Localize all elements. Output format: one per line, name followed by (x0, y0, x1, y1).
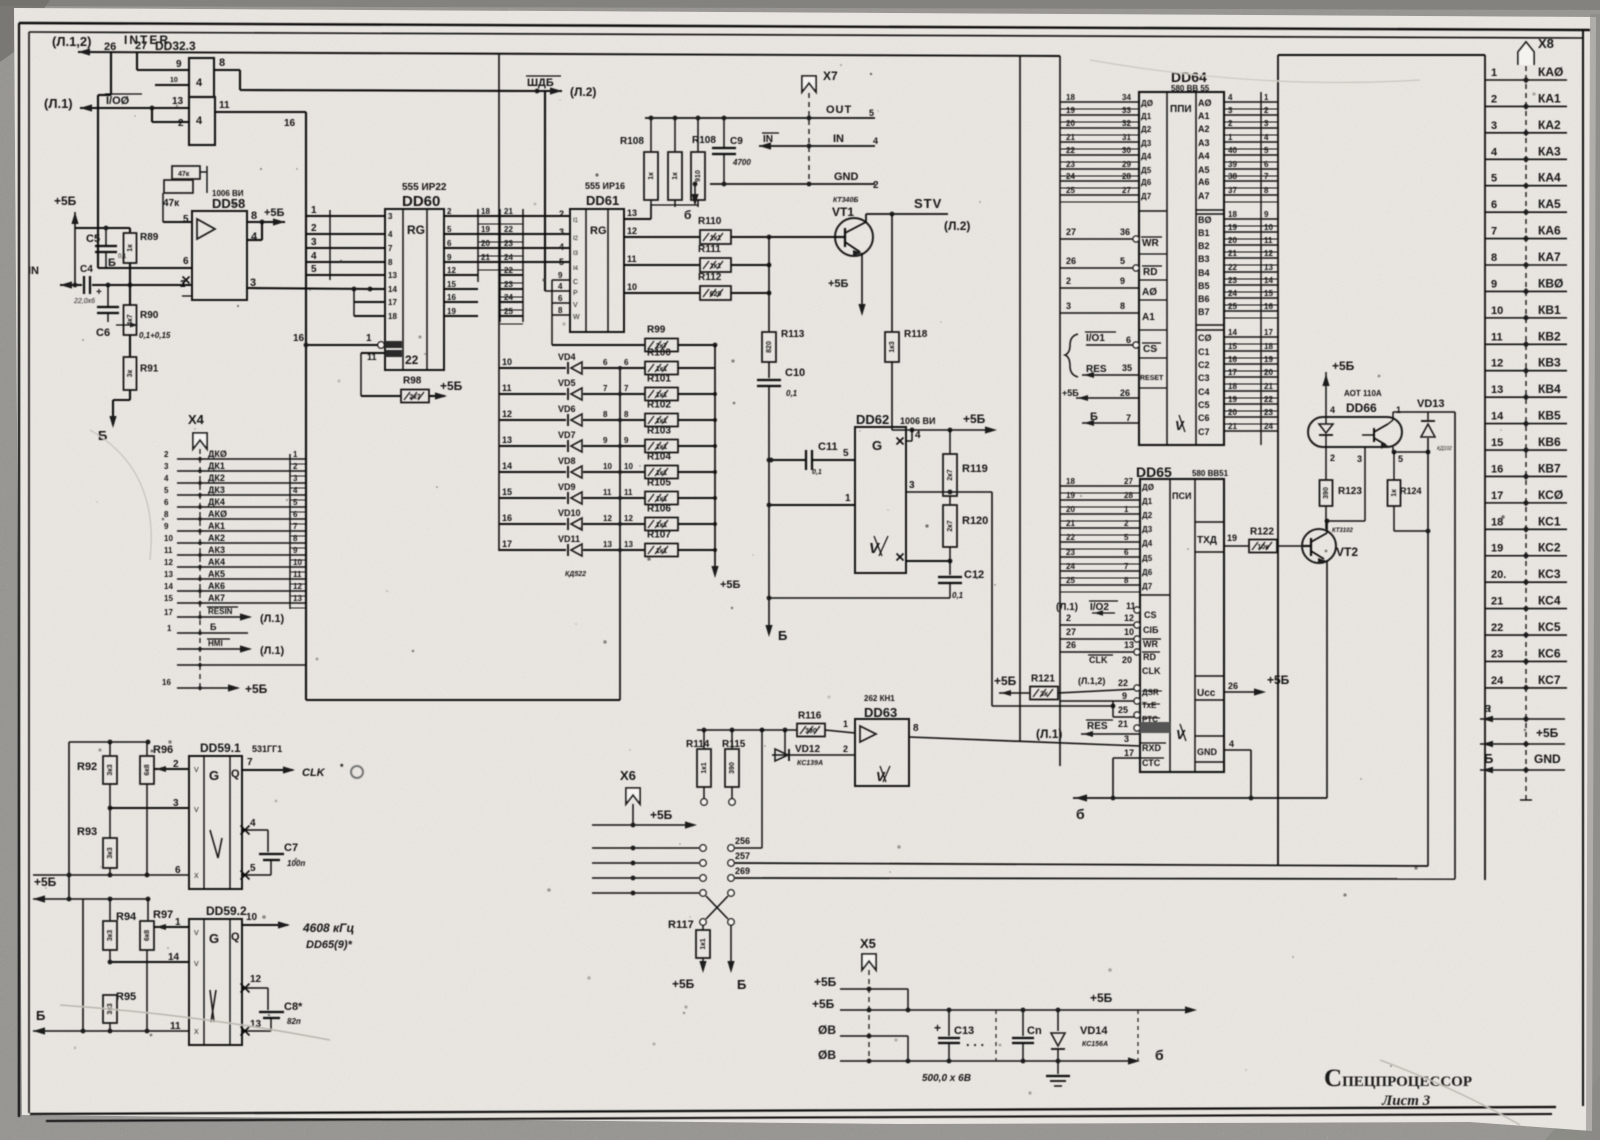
svg-text:11: 11 (164, 546, 173, 555)
svg-text:4: 4 (559, 242, 564, 252)
svg-text:3: 3 (311, 237, 317, 248)
svg-text:DD60: DD60 (402, 193, 440, 210)
svg-text:Д5: Д5 (1141, 166, 1152, 175)
svg-text:10: 10 (1124, 627, 1134, 637)
svg-text:VD4: VD4 (558, 352, 576, 362)
svg-text:4: 4 (1229, 739, 1234, 749)
svg-text:б: б (1155, 1047, 1164, 1063)
svg-text:(Л.2): (Л.2) (570, 85, 596, 99)
svg-text:3: 3 (559, 227, 564, 237)
svg-text:А6: А6 (1198, 177, 1210, 187)
svg-text:В5: В5 (1198, 281, 1210, 291)
svg-text:ДØ: ДØ (1141, 99, 1153, 108)
svg-text:АК2: АК2 (208, 533, 225, 543)
svg-text:DD58: DD58 (212, 196, 245, 211)
svg-text:WR: WR (1143, 639, 1158, 649)
svg-text:R96: R96 (153, 744, 173, 756)
svg-text:4: 4 (1330, 405, 1335, 415)
svg-text:КТ340Б: КТ340Б (833, 197, 858, 204)
svg-text:КА6: КА6 (1538, 224, 1561, 238)
svg-text:R97: R97 (153, 909, 173, 921)
svg-text:А2: А2 (1198, 124, 1210, 134)
svg-text:+5Б: +5Б (1090, 991, 1113, 1005)
svg-text:27: 27 (1066, 227, 1076, 237)
svg-text:820: 820 (766, 341, 773, 353)
svg-text:24: 24 (504, 253, 513, 262)
svg-text:GND: GND (1197, 747, 1218, 757)
svg-text:0,1: 0,1 (786, 389, 798, 398)
svg-text:21: 21 (1066, 133, 1075, 142)
svg-text:1: 1 (1124, 505, 1129, 514)
svg-text:DD65(9)*: DD65(9)* (306, 939, 353, 951)
svg-text:КВ7: КВ7 (1538, 461, 1561, 475)
svg-text:16: 16 (502, 513, 512, 523)
svg-text:КА5: КА5 (1538, 197, 1561, 211)
svg-text:21: 21 (1228, 249, 1237, 258)
svg-text:4: 4 (915, 430, 921, 441)
svg-text:4: 4 (388, 230, 393, 239)
svg-text:1к3: 1к3 (889, 341, 896, 352)
svg-text:ØВ: ØВ (818, 1048, 836, 1062)
svg-text:0,1: 0,1 (952, 591, 964, 600)
svg-text:14: 14 (388, 285, 397, 294)
svg-text:Q: Q (231, 931, 240, 943)
svg-text:21: 21 (1066, 519, 1075, 528)
svg-text:5: 5 (311, 264, 317, 275)
svg-text:11: 11 (624, 488, 633, 497)
svg-text:R113: R113 (781, 329, 805, 340)
svg-text:DD62: DD62 (856, 412, 889, 427)
svg-text:X8: X8 (1538, 36, 1554, 51)
svg-text:5: 5 (1124, 533, 1129, 542)
svg-text:4: 4 (293, 486, 298, 495)
svg-text:24: 24 (1066, 172, 1075, 181)
svg-text:1: 1 (311, 205, 317, 216)
svg-text:ППИ: ППИ (1170, 104, 1192, 115)
svg-text:КА1: КА1 (1538, 91, 1561, 105)
svg-text:(Л.1): (Л.1) (1036, 727, 1062, 741)
svg-text:КС6: КС6 (1538, 646, 1561, 660)
svg-text:2к7: 2к7 (947, 469, 954, 480)
svg-text:КА3: КА3 (1538, 144, 1561, 158)
svg-text:12: 12 (250, 974, 262, 985)
svg-text:10: 10 (1264, 223, 1273, 232)
svg-text:В2: В2 (1198, 241, 1210, 251)
svg-text:257: 257 (735, 851, 750, 861)
svg-text:IN: IN (833, 133, 844, 145)
svg-text:20: 20 (1066, 505, 1075, 514)
svg-text:19: 19 (447, 307, 456, 316)
svg-text:6: 6 (1264, 160, 1269, 169)
svg-text:1: 1 (1396, 405, 1401, 415)
svg-text:1: 1 (167, 624, 172, 633)
svg-text:Б: Б (210, 622, 217, 632)
svg-text:ПСИ: ПСИ (1172, 491, 1191, 501)
svg-text:29: 29 (1122, 160, 1131, 169)
svg-text:RG: RG (407, 223, 425, 237)
svg-text:2: 2 (164, 450, 169, 459)
svg-text:28: 28 (1122, 172, 1131, 181)
svg-text:5: 5 (1120, 256, 1125, 266)
svg-text:3: 3 (909, 480, 915, 491)
svg-text:КВ1: КВ1 (1538, 303, 1561, 317)
svg-text:4: 4 (1264, 133, 1269, 142)
svg-text:500,0 x 6В: 500,0 x 6В (922, 1073, 971, 1084)
svg-text:W: W (573, 314, 580, 321)
svg-text:I4: I4 (573, 266, 579, 272)
svg-text:А7: А7 (1198, 191, 1210, 201)
svg-text:V: V (194, 930, 199, 937)
svg-text:20: 20 (1228, 408, 1237, 417)
svg-text:12: 12 (1124, 613, 1134, 623)
svg-text:4: 4 (196, 115, 203, 127)
svg-text:19: 19 (1228, 223, 1237, 232)
svg-text:6к8: 6к8 (144, 764, 151, 775)
svg-text:24: 24 (1491, 675, 1504, 687)
svg-text:R114: R114 (686, 739, 710, 750)
svg-text:P: P (573, 290, 578, 297)
svg-text:R115: R115 (722, 739, 746, 750)
svg-text:3: 3 (293, 474, 298, 483)
svg-text:910: 910 (695, 170, 702, 182)
svg-text:16: 16 (1264, 302, 1273, 311)
svg-text:11: 11 (1491, 331, 1503, 343)
svg-text:2: 2 (293, 462, 298, 471)
svg-text:1к1: 1к1 (700, 938, 707, 949)
svg-text:2: 2 (873, 180, 879, 191)
svg-text:25: 25 (504, 307, 513, 316)
svg-text:25: 25 (1066, 186, 1075, 195)
svg-text:КА7: КА7 (1538, 250, 1561, 264)
svg-text:Д5: Д5 (1142, 554, 1153, 563)
svg-text:14: 14 (502, 461, 512, 471)
svg-text:Д7: Д7 (1141, 192, 1152, 201)
svg-text:6: 6 (175, 865, 181, 876)
svg-text:С1: С1 (1198, 347, 1210, 357)
svg-text:47к: 47к (178, 171, 190, 178)
svg-text:DD32.3: DD32.3 (155, 39, 196, 53)
svg-text:ТхЕ: ТхЕ (1142, 701, 1157, 710)
svg-text:18: 18 (1066, 477, 1075, 486)
svg-text:C5: C5 (86, 233, 100, 245)
svg-text:12: 12 (603, 514, 612, 523)
svg-text:3к: 3к (127, 369, 134, 377)
svg-text:3: 3 (1228, 106, 1233, 115)
svg-text:12: 12 (1264, 249, 1273, 258)
svg-text:2: 2 (559, 209, 564, 219)
svg-text:АК7: АК7 (208, 593, 225, 603)
svg-text:VD6: VD6 (558, 404, 576, 414)
svg-text:Д2: Д2 (1142, 511, 1153, 520)
svg-text:8: 8 (1120, 301, 1125, 311)
svg-text:16: 16 (1491, 463, 1503, 475)
svg-text:17: 17 (502, 539, 512, 549)
svg-text:В6: В6 (1198, 294, 1210, 304)
svg-text:17: 17 (1228, 368, 1237, 377)
svg-text:DD59.1: DD59.1 (200, 741, 241, 755)
svg-text:23: 23 (504, 239, 513, 248)
svg-text:531ГГ1: 531ГГ1 (252, 744, 282, 754)
svg-text:В3: В3 (1198, 254, 1210, 264)
svg-text:13: 13 (502, 435, 512, 445)
svg-text:6: 6 (1126, 335, 1131, 345)
svg-text:9: 9 (1122, 691, 1127, 701)
svg-text:А4: А4 (1198, 151, 1210, 161)
svg-text:ДSR: ДSR (1142, 688, 1159, 697)
svg-text:КС1: КС1 (1538, 514, 1561, 528)
svg-text:20: 20 (1122, 655, 1132, 665)
svg-text:X: X (194, 873, 199, 880)
svg-text:390: 390 (1323, 487, 1330, 499)
svg-text:1: 1 (293, 450, 298, 459)
svg-text:C9: C9 (730, 136, 743, 147)
svg-text:23: 23 (1228, 276, 1237, 285)
svg-text:23: 23 (1491, 648, 1503, 660)
svg-text:(Л.1): (Л.1) (260, 645, 285, 657)
svg-text:I1: I1 (573, 218, 579, 224)
svg-text:12: 12 (164, 558, 173, 567)
svg-text:КД522: КД522 (565, 571, 586, 578)
svg-text:10: 10 (293, 558, 302, 567)
svg-text:АК5: АК5 (208, 569, 225, 579)
svg-text:КА2: КА2 (1538, 118, 1561, 132)
svg-text:1: 1 (843, 719, 848, 729)
svg-text:10: 10 (603, 462, 612, 471)
svg-text:V: V (194, 807, 199, 814)
svg-text:R119: R119 (962, 463, 988, 475)
svg-text:14: 14 (1264, 276, 1273, 285)
svg-text:DD63: DD63 (864, 705, 897, 720)
svg-text:КС3: КС3 (1538, 567, 1561, 581)
svg-text:А5: А5 (1198, 165, 1210, 175)
svg-text:8: 8 (293, 534, 298, 543)
svg-text:9: 9 (1120, 276, 1125, 286)
svg-text:(Л.1): (Л.1) (44, 96, 73, 111)
svg-text:23: 23 (1066, 160, 1075, 169)
svg-text:10: 10 (627, 282, 637, 292)
svg-text:18: 18 (1491, 516, 1503, 528)
svg-text:8: 8 (1491, 252, 1497, 264)
svg-text:19: 19 (1264, 355, 1273, 364)
svg-text:STV: STV (914, 196, 942, 211)
svg-text:Б: Б (1484, 751, 1493, 766)
svg-text:16: 16 (447, 293, 456, 302)
svg-text:+5Б: +5Б (963, 412, 986, 426)
svg-text:15: 15 (164, 594, 173, 603)
svg-text:R104: R104 (647, 452, 671, 463)
svg-text:Q: Q (231, 768, 240, 780)
svg-text:2к7: 2к7 (947, 520, 954, 531)
svg-text:C7: C7 (284, 842, 298, 854)
svg-text:+5Б: +5Б (245, 682, 268, 696)
svg-text:22: 22 (1066, 146, 1075, 155)
svg-text:2: 2 (1228, 119, 1233, 128)
svg-text:С3: С3 (1198, 373, 1210, 383)
svg-text:R91: R91 (140, 364, 159, 375)
svg-text:2: 2 (1124, 519, 1129, 528)
svg-text:I3: I3 (573, 251, 579, 257)
svg-text:1: 1 (1264, 93, 1269, 102)
svg-text:555 ИР16: 555 ИР16 (585, 181, 625, 191)
svg-text:КС2: КС2 (1538, 541, 1561, 555)
svg-text:(Л.1,2): (Л.1,2) (52, 34, 91, 49)
svg-text:R93: R93 (77, 826, 97, 838)
svg-text:21: 21 (1118, 719, 1128, 729)
svg-text:+5Б: +5Б (264, 207, 285, 219)
svg-text:R100: R100 (647, 348, 671, 359)
svg-text:R120: R120 (962, 515, 988, 527)
svg-text:3: 3 (1264, 119, 1269, 128)
svg-text:18: 18 (1066, 93, 1075, 102)
svg-text:VD5: VD5 (558, 378, 576, 388)
svg-text:7: 7 (1491, 226, 1497, 238)
svg-text:G: G (209, 931, 219, 946)
svg-text:RG: RG (590, 225, 607, 237)
svg-text:1: 1 (1228, 133, 1233, 142)
svg-text:4: 4 (251, 231, 258, 243)
svg-text:R123: R123 (1338, 486, 1362, 497)
svg-text:6: 6 (1491, 199, 1497, 211)
svg-text:2: 2 (1491, 93, 1497, 105)
svg-text:28: 28 (1124, 491, 1133, 500)
svg-text:13: 13 (1264, 263, 1273, 272)
svg-text:R122: R122 (1250, 527, 1274, 538)
svg-text:2: 2 (1330, 453, 1335, 463)
svg-text:22: 22 (1228, 263, 1237, 272)
svg-text:+5Б: +5Б (720, 579, 741, 591)
svg-text:0,1: 0,1 (812, 469, 822, 476)
svg-text:VD14: VD14 (1080, 1025, 1108, 1037)
svg-text:V: V (1175, 418, 1185, 433)
svg-text:390: 390 (729, 762, 736, 774)
svg-text:10: 10 (170, 77, 178, 84)
svg-text:16: 16 (284, 118, 296, 129)
svg-text:CS: CS (1144, 610, 1157, 620)
svg-text:АК4: АК4 (208, 557, 225, 567)
svg-text:47к: 47к (163, 198, 180, 209)
svg-text:X4: X4 (188, 412, 205, 427)
svg-text:X7: X7 (823, 69, 838, 83)
svg-text:9: 9 (1264, 210, 1269, 219)
svg-text:11: 11 (603, 488, 612, 497)
svg-text:СØ: СØ (1198, 333, 1212, 343)
svg-text:12: 12 (1491, 358, 1503, 370)
svg-text:31: 31 (1122, 133, 1131, 142)
svg-text:Д1: Д1 (1142, 497, 1153, 506)
svg-text:11: 11 (627, 254, 637, 264)
svg-text:9: 9 (176, 59, 182, 70)
svg-text:15: 15 (502, 487, 512, 497)
svg-text:12: 12 (447, 266, 456, 275)
svg-text:21: 21 (1228, 422, 1237, 431)
svg-text:OUT: OUT (826, 104, 852, 116)
svg-text:R101: R101 (647, 374, 671, 385)
svg-text:17: 17 (388, 298, 397, 307)
svg-text:Д4: Д4 (1142, 539, 1153, 548)
svg-text:36: 36 (1120, 227, 1130, 237)
svg-text:12: 12 (293, 582, 302, 591)
svg-text:+5Б: +5Б (994, 674, 1017, 688)
svg-text:4: 4 (873, 136, 878, 146)
svg-text:VT2: VT2 (1336, 545, 1358, 559)
svg-text:8: 8 (558, 306, 563, 315)
svg-text:6: 6 (183, 256, 189, 267)
svg-text:9: 9 (1491, 278, 1497, 290)
svg-text:13: 13 (1491, 384, 1503, 396)
svg-text:ВØ: ВØ (1198, 215, 1212, 225)
svg-text:9: 9 (558, 271, 563, 280)
svg-text:А1: А1 (1198, 111, 1210, 121)
svg-text:15: 15 (447, 280, 456, 289)
svg-text:35: 35 (1122, 363, 1132, 373)
svg-text:G: G (209, 768, 219, 783)
svg-text:9: 9 (164, 522, 169, 531)
svg-text:11: 11 (1264, 236, 1273, 245)
svg-text:27: 27 (135, 40, 147, 52)
svg-text:ØВ: ØВ (818, 1023, 836, 1037)
svg-text:*: * (340, 762, 344, 772)
svg-text:V: V (573, 302, 578, 309)
svg-text:+5Б: +5Б (1536, 726, 1559, 740)
svg-text:VD7: VD7 (558, 430, 576, 440)
svg-text:C6: C6 (96, 327, 110, 339)
svg-text:4700: 4700 (732, 158, 751, 167)
svg-text:Д3: Д3 (1141, 139, 1152, 148)
svg-text:Д2: Д2 (1141, 125, 1152, 134)
svg-text:1к: 1к (1391, 489, 1398, 497)
svg-text:+5Б: +5Б (650, 808, 673, 822)
svg-text:24: 24 (1066, 562, 1075, 571)
svg-text:C4: C4 (80, 264, 93, 275)
svg-text:32: 32 (1122, 119, 1131, 128)
svg-text:CIБ: CIБ (1143, 625, 1159, 635)
svg-text:DD66: DD66 (1346, 401, 1377, 415)
svg-text:RES: RES (1087, 721, 1108, 732)
svg-text:Б: Б (36, 1008, 45, 1023)
svg-text:20.: 20. (1491, 569, 1506, 581)
svg-text:5: 5 (1264, 146, 1269, 155)
svg-text:КД102: КД102 (1437, 446, 1452, 452)
svg-text:1к: 1к (127, 244, 134, 252)
svg-text:А1: А1 (1142, 312, 1155, 323)
svg-text:a: a (1484, 700, 1491, 715)
svg-text:Д7: Д7 (1142, 582, 1153, 591)
svg-text:3к3: 3к3 (107, 764, 114, 775)
svg-text:6: 6 (624, 358, 629, 367)
svg-text:I/ОØ: I/ОØ (106, 95, 130, 107)
svg-text:C8*: C8* (284, 1001, 303, 1013)
svg-text:CLK: CLK (1142, 666, 1161, 676)
svg-text:3к3: 3к3 (107, 930, 114, 941)
svg-text:6: 6 (603, 358, 608, 367)
svg-text:10: 10 (624, 462, 633, 471)
svg-text:4: 4 (311, 251, 317, 262)
svg-text:ДКØ: ДКØ (208, 449, 227, 459)
svg-text:КВ2: КВ2 (1538, 329, 1561, 343)
svg-text:КАØ: КАØ (1538, 65, 1563, 79)
svg-text:26: 26 (1066, 640, 1076, 650)
svg-text:+5Б: +5Б (34, 875, 57, 889)
svg-text:13: 13 (388, 271, 397, 280)
svg-text:3к3: 3к3 (107, 847, 114, 858)
svg-text:6к8: 6к8 (144, 930, 151, 941)
svg-text:б: б (684, 208, 691, 222)
svg-text:6: 6 (164, 498, 169, 507)
svg-text:R108: R108 (620, 136, 644, 147)
svg-text:R117: R117 (668, 919, 694, 931)
svg-text:G: G (872, 438, 882, 453)
svg-text:КС156А: КС156А (1082, 1041, 1108, 1048)
